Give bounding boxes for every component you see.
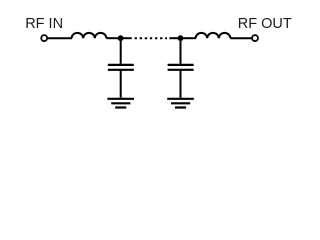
- capacitor C2: [168, 65, 194, 70]
- svg-text:RF OUT: RF OUT: [238, 16, 292, 32]
- wire C2 bottom plate to ground: [180, 70, 182, 98]
- ground GND1: [107, 99, 134, 108]
- wire J1 to L1: [48, 37, 72, 39]
- wire L2 to J2: [230, 37, 251, 39]
- wire node B to L2: [181, 37, 197, 39]
- node B junction dot: [178, 35, 184, 41]
- terminal J1 (RF IN port): [41, 35, 47, 41]
- wire L1 to node A: [106, 37, 121, 39]
- wire node A to C1 top plate: [120, 38, 122, 64]
- capacitor C1: [108, 65, 134, 70]
- wire dashed (omitted repeated sections): [135, 37, 167, 39]
- wire node B to C2 top plate: [180, 38, 182, 64]
- ground GND2: [167, 99, 194, 108]
- node A junction dot: [118, 35, 124, 41]
- wire dashed section to node B: [169, 37, 180, 39]
- terminal J2 (RF OUT port): [252, 35, 258, 41]
- wire C1 bottom plate to ground: [120, 70, 122, 98]
- inductor L1: [72, 33, 107, 38]
- wire node A to dashed section: [121, 37, 132, 39]
- inductor L2: [196, 33, 231, 38]
- svg-text:RF IN: RF IN: [25, 16, 63, 32]
